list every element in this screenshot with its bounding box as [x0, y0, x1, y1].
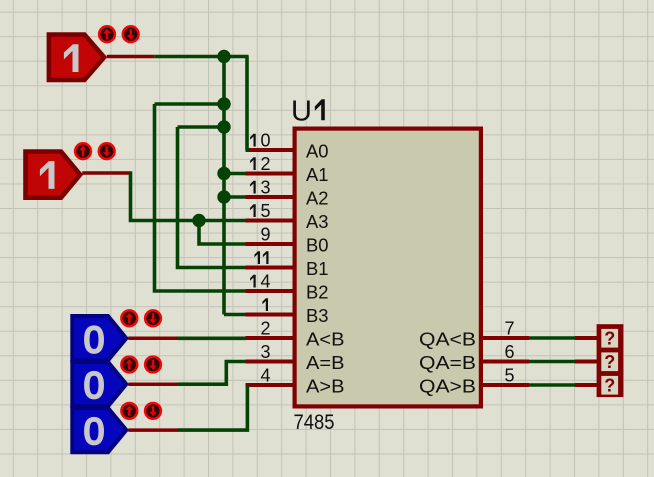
svg-text:3: 3 — [260, 342, 270, 362]
svg-text:A=B: A=B — [306, 353, 345, 373]
svg-text:?: ? — [604, 328, 615, 348]
svg-text:0: 0 — [84, 319, 105, 360]
svg-text:0: 0 — [260, 131, 270, 151]
svg-text:2: 2 — [260, 154, 270, 174]
svg-text:U: U — [291, 96, 312, 128]
svg-text:7: 7 — [505, 319, 515, 339]
svg-text:QA<B: QA<B — [419, 329, 476, 349]
svg-text:QA=B: QA=B — [419, 353, 476, 373]
svg-text:B2: B2 — [306, 282, 329, 302]
svg-text:B1: B1 — [306, 259, 329, 279]
svg-text:A>B: A>B — [306, 376, 345, 396]
svg-text:0: 0 — [84, 411, 105, 452]
svg-text:0: 0 — [84, 365, 105, 406]
svg-text:6: 6 — [505, 342, 515, 362]
svg-text:A3: A3 — [306, 212, 329, 232]
svg-text:?: ? — [604, 375, 615, 395]
svg-text:5: 5 — [260, 201, 270, 221]
svg-text:2: 2 — [260, 319, 270, 339]
svg-text:QA>B: QA>B — [419, 376, 476, 396]
svg-text:B0: B0 — [306, 235, 329, 255]
svg-text:5: 5 — [505, 366, 515, 386]
svg-text:7485: 7485 — [294, 411, 335, 434]
svg-text:A2: A2 — [306, 188, 329, 208]
svg-text:4: 4 — [260, 272, 270, 292]
svg-text:4: 4 — [260, 366, 270, 386]
svg-text:A1: A1 — [306, 165, 329, 185]
svg-text:?: ? — [604, 352, 615, 372]
svg-text:A<B: A<B — [306, 329, 345, 349]
svg-text:B3: B3 — [306, 306, 329, 326]
svg-text:3: 3 — [260, 178, 270, 198]
svg-text:9: 9 — [260, 225, 270, 245]
svg-text:A0: A0 — [306, 141, 329, 161]
